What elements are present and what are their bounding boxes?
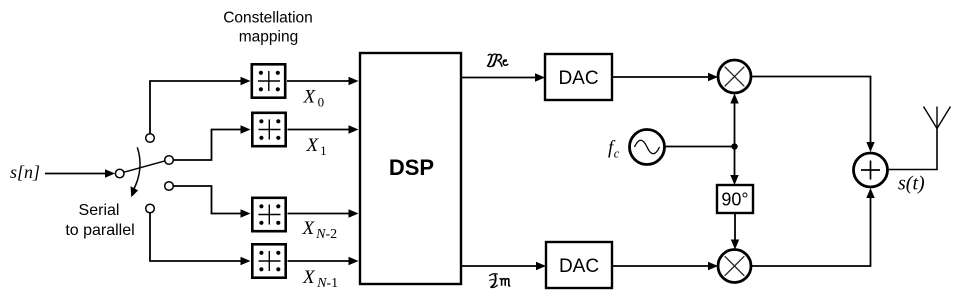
svg-text:Serial: Serial <box>79 202 120 219</box>
wire: M4 to DSP <box>288 257 359 265</box>
DAC block U2 <box>545 54 612 100</box>
wire: mixer1 to adder <box>751 77 875 153</box>
wire: oscillator to junction <box>665 146 735 148</box>
wire: 90deg block to mixer2 <box>731 213 739 250</box>
svg-text:fc: fc <box>608 138 620 161</box>
svg-text:DSP: DSP <box>389 155 434 180</box>
svg-text:s(t): s(t) <box>898 173 925 195</box>
svg-text:to parallel: to parallel <box>65 222 134 239</box>
mixer2 (Q branch) <box>718 250 751 283</box>
svg-text:X1: X1 <box>306 135 327 158</box>
mixer1 (I branch) <box>718 60 751 93</box>
node: switch contact row 2 <box>165 156 174 165</box>
wire: contact2 to mapper M2 <box>173 125 250 160</box>
constellation mapper M3 <box>252 198 285 231</box>
svg-text:X0: X0 <box>303 87 325 110</box>
label: Im (fraktur) <box>489 274 510 288</box>
svg-text:90°: 90° <box>721 190 748 210</box>
DSP block U1 <box>360 53 461 284</box>
wire: DAC2 to mixer2 <box>612 262 718 270</box>
node: switch contact row 3 <box>165 182 174 191</box>
wire: DSP Im output to DAC2 <box>462 262 546 270</box>
90 degree phase shifter block <box>717 185 753 213</box>
wire: M2 to DSP <box>288 125 359 133</box>
svg-text:DAC: DAC <box>558 68 598 89</box>
label: Re (fraktur) <box>487 54 508 67</box>
svg-text:DAC: DAC <box>559 256 599 277</box>
label: Serial to parallel <box>65 202 134 239</box>
wire: mixer2 to adder <box>751 188 875 266</box>
adder (summer) <box>854 153 888 187</box>
wire: M1 to DSP <box>287 77 359 85</box>
svg-text:Constellation: Constellation <box>223 10 313 27</box>
constellation mapper M2 <box>252 113 285 146</box>
svg-text:XN-1: XN-1 <box>302 267 338 291</box>
node: carrier junction <box>731 143 737 149</box>
svg-text:XN-2: XN-2 <box>302 218 338 242</box>
node: switch contact row 1 <box>146 134 155 143</box>
wire: contact1 to mapper M1 <box>150 77 251 134</box>
node: switch contact row 4 <box>146 204 155 213</box>
wire: junction down to 90deg block <box>730 147 738 186</box>
wire: M3 to DSP <box>288 209 359 217</box>
antenna <box>924 107 951 129</box>
DAC block U3 <box>546 242 612 288</box>
wire: contact4 to mapper M4 <box>150 213 251 265</box>
constellation mapper M1 <box>252 64 285 97</box>
wire: input s[n] arrow <box>45 169 115 177</box>
wire: DAC1 to mixer1 <box>612 73 718 81</box>
node: switch input contact <box>115 169 124 178</box>
wire: switch rotation arrow <box>131 147 141 197</box>
wire: junction up to mixer1 <box>730 94 738 147</box>
oscillator fc <box>630 130 665 165</box>
wire: DSP Re output to DAC1 <box>462 73 545 81</box>
wire: switch arm <box>124 161 165 172</box>
svg-text:mapping: mapping <box>239 29 298 46</box>
constellation mapper M4 <box>252 244 285 277</box>
wire: contact3 to mapper M3 <box>173 186 250 218</box>
label: Constellation mapping <box>223 10 313 46</box>
wire: adder to antenna <box>888 129 937 170</box>
svg-text:s[n]: s[n] <box>10 162 40 182</box>
